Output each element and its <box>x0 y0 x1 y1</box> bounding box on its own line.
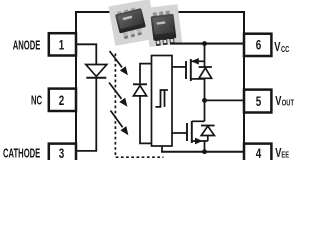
svg-text:V: V <box>275 94 282 108</box>
wire amp output to lower gate <box>172 132 187 134</box>
wire photodiode cathode <box>140 64 152 84</box>
light arrow 3 <box>111 111 128 135</box>
label VEE <box>275 147 282 161</box>
pin 2 number <box>59 92 65 108</box>
svg-text:V: V <box>274 41 281 55</box>
svg-text:3: 3 <box>59 145 65 160</box>
junction node VEE <box>202 149 207 154</box>
svg-text:2: 2 <box>59 92 65 108</box>
label ANODE <box>13 39 41 54</box>
body diode D3 (lower) <box>201 126 215 142</box>
wire amp block to VEE <box>161 146 163 152</box>
wire VCC to Q1 drain <box>204 44 206 67</box>
label CATHODE <box>3 146 40 161</box>
wire amp output to upper gate <box>172 66 186 68</box>
junction node VOUT <box>202 98 207 103</box>
wire VOUT node to Q2 drain <box>204 100 206 121</box>
pin 1 box <box>49 33 76 55</box>
junction node VCC <box>202 41 207 46</box>
N-MOSFET Q2 <box>187 121 208 144</box>
VEE rail wire <box>161 151 244 153</box>
package photo 2 (SO-6 body) <box>145 4 183 47</box>
pin 3 number <box>59 145 65 161</box>
P-MOSFET Q1 <box>186 59 205 81</box>
photodiode PD1 <box>133 84 147 96</box>
VCC rail wire <box>170 43 244 45</box>
wire pin1 to LED anode <box>76 44 96 64</box>
pin 6 number <box>256 37 262 53</box>
hysteresis symbol <box>155 90 168 107</box>
pin 1 number <box>59 37 65 53</box>
package photo 1 (SO-6 stretched body) <box>108 0 156 46</box>
svg-text:1: 1 <box>59 37 65 53</box>
wire photodiode anode to amp <box>140 96 152 143</box>
svg-text:ANODE: ANODE <box>13 39 41 54</box>
svg-text:4: 4 <box>256 145 262 160</box>
shield (dashed) <box>115 54 163 158</box>
svg-text:EE: EE <box>281 150 289 160</box>
amplifier block U1 <box>152 56 173 147</box>
label VOUT <box>275 94 282 108</box>
pin 4 box <box>244 144 271 166</box>
pin 3 box <box>49 144 76 166</box>
wire Q1 source to VOUT node <box>204 78 206 100</box>
wire Q2 source to VEE rail <box>204 141 206 152</box>
svg-text:CATHODE: CATHODE <box>3 146 40 160</box>
svg-text:OUT: OUT <box>282 97 295 108</box>
svg-text:NC: NC <box>31 94 42 109</box>
wire LED cathode to pin 3 <box>76 78 96 151</box>
label VCC <box>274 41 281 55</box>
svg-text:6: 6 <box>256 37 262 53</box>
LED D1 <box>86 65 107 78</box>
pin 4 number <box>256 145 262 161</box>
body diode D2 (upper) <box>199 67 212 78</box>
pin 5 box <box>244 90 271 113</box>
pin 2 box <box>49 89 76 111</box>
svg-text:5: 5 <box>256 93 262 109</box>
light arrow 2 <box>109 83 127 106</box>
svg-text:CC: CC <box>281 44 290 55</box>
pin 5 number <box>256 93 262 109</box>
package outline (IC body) <box>76 12 244 164</box>
pin 6 box <box>244 34 271 56</box>
VOUT wire <box>205 99 245 101</box>
light arrow 1 <box>110 51 128 74</box>
label NC <box>31 94 42 109</box>
